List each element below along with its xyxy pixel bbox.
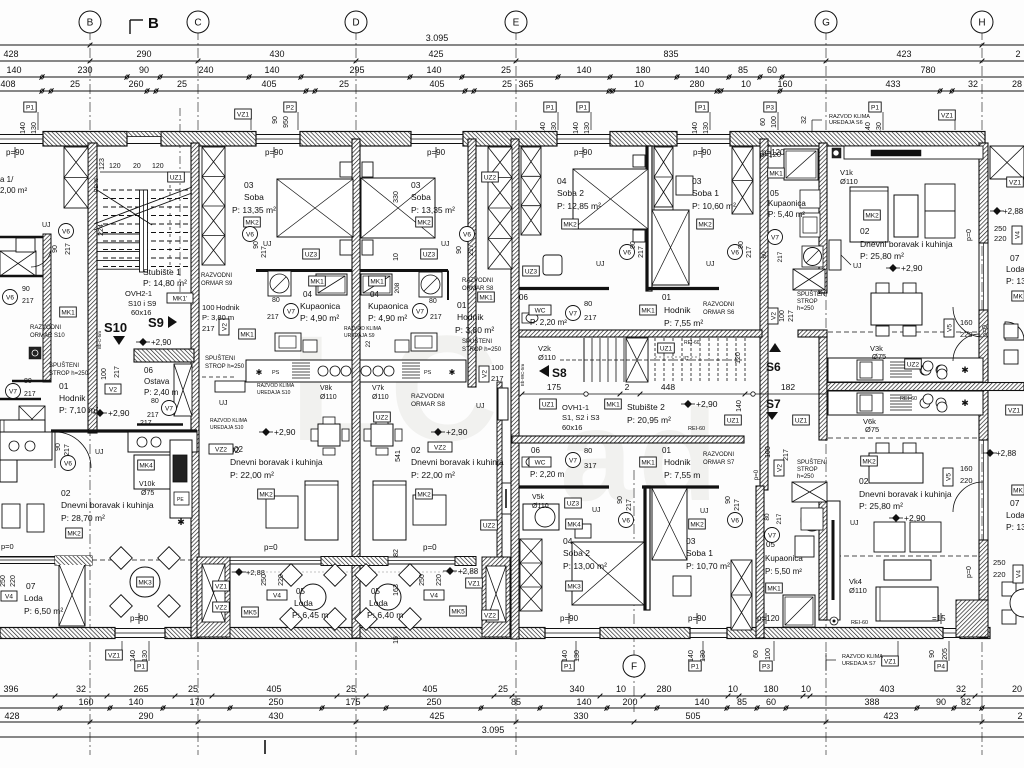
svg-text:Loda: Loda [1006, 264, 1024, 274]
svg-text:SPUŠTENI: SPUŠTENI [797, 459, 827, 466]
svg-text:100: 100 [491, 363, 504, 372]
bath S9 shower [316, 274, 347, 295]
bed Soba1 top (rotated) [652, 210, 689, 285]
svg-text:REI-60: REI-60 [851, 620, 868, 626]
svg-text:WC: WC [535, 308, 546, 315]
svg-text:D: D [352, 18, 359, 29]
svg-text:28: 28 [1012, 79, 1022, 89]
svg-text:60: 60 [767, 65, 777, 75]
svg-text:Hodnik: Hodnik [216, 303, 240, 312]
svg-text:06: 06 [144, 366, 153, 375]
svg-text:VZ1: VZ1 [215, 584, 227, 591]
svg-text:Ø75: Ø75 [865, 425, 879, 434]
svg-text:10: 10 [393, 253, 400, 261]
svg-text:Soba 1: Soba 1 [692, 188, 719, 198]
svg-text:p=0: p=0 [966, 566, 973, 578]
svg-text:140: 140 [562, 650, 569, 662]
svg-text:STROP h=250: STROP h=250 [205, 364, 245, 370]
bottom dim row 3 [0, 721, 1024, 723]
svg-text:130: 130 [700, 650, 707, 662]
bath S8 vanity [411, 333, 437, 351]
svg-text:h=250: h=250 [797, 474, 815, 480]
svg-text:UZ3: UZ3 [525, 269, 538, 276]
svg-text:05: 05 [296, 587, 305, 596]
svg-text:Kupaonica: Kupaonica [368, 301, 408, 311]
svg-text:RAZVOD KLIMA: RAZVOD KLIMA [210, 418, 248, 424]
left apartment wardrobe [0, 251, 36, 276]
svg-text:60: 60 [753, 650, 760, 658]
svg-text:UJ: UJ [476, 403, 485, 410]
svg-text:10: 10 [634, 79, 644, 89]
svg-text:22: 22 [366, 340, 372, 347]
svg-text:RAZVODNI: RAZVODNI [703, 302, 734, 308]
svg-text:208: 208 [394, 282, 401, 293]
loggia pillar mid [197, 557, 230, 637]
vertical wall E apartment east / stairwell2 [760, 139, 768, 490]
svg-text:V6: V6 [246, 231, 254, 238]
svg-text:140: 140 [692, 122, 699, 134]
svg-text:V2: V2 [109, 387, 117, 394]
kitchen S8 counter [360, 360, 466, 382]
dining table S8 [371, 424, 393, 446]
svg-text:85: 85 [737, 697, 747, 707]
svg-text:STROP h=250: STROP h=250 [462, 347, 502, 353]
svg-text:S9: S9 [148, 315, 164, 330]
svg-text:P1: P1 [137, 664, 145, 671]
left apartment inner walls [0, 236, 51, 239]
svg-text:3.095: 3.095 [426, 33, 449, 43]
svg-text:25: 25 [188, 684, 198, 694]
svg-text:UZ3: UZ3 [305, 252, 318, 259]
sofa right apartment top [850, 187, 888, 242]
svg-text:182: 182 [781, 382, 795, 392]
svg-text:MK1: MK1 [641, 460, 655, 467]
svg-text:217: 217 [746, 246, 753, 258]
svg-text:130: 130 [142, 650, 149, 662]
svg-text:408: 408 [0, 79, 15, 89]
svg-text:VZ2: VZ2 [215, 447, 227, 454]
svg-text:V6: V6 [64, 460, 72, 467]
svg-text:V7: V7 [165, 405, 173, 412]
svg-text:80: 80 [584, 299, 592, 308]
svg-text:20: 20 [133, 163, 141, 170]
top outer wall [43, 132, 127, 147]
right apt dashed guides [828, 331, 979, 333]
svg-text:100: 100 [101, 368, 108, 380]
right apt bath top fixtures [784, 149, 818, 180]
svg-text:P: 13,35 m²: P: 13,35 m² [411, 205, 455, 215]
svg-text:140: 140 [20, 122, 27, 134]
svg-text:123: 123 [99, 158, 106, 170]
svg-text:F: F [631, 662, 637, 673]
kitchen right apartment bottom row [828, 391, 983, 415]
svg-text:02: 02 [411, 445, 421, 455]
stair2 area texts [529, 305, 551, 315]
svg-text:10: 10 [801, 684, 811, 694]
top wall stair opening [127, 143, 161, 145]
svg-text:RAZVODNI: RAZVODNI [201, 273, 232, 279]
svg-text:140: 140 [688, 650, 695, 662]
svg-text:V7: V7 [416, 308, 424, 315]
bed S8 room [361, 178, 435, 238]
svg-text:100: 100 [771, 116, 778, 128]
top overall dimension 3.095 [0, 44, 1024, 46]
svg-text:V7: V7 [287, 308, 295, 315]
svg-text:P: 13: P: 13 [1006, 522, 1024, 532]
svg-text:MK3: MK3 [567, 584, 581, 591]
svg-text:p=0: p=0 [1, 542, 14, 551]
svg-text:Ø75: Ø75 [872, 352, 886, 361]
bottom dim row 2 [0, 707, 1024, 709]
svg-text:82: 82 [393, 549, 400, 557]
shaft left bottom bedroom [520, 539, 542, 611]
right loggia top X panel [990, 146, 1024, 179]
svg-text:03: 03 [686, 536, 696, 546]
svg-text:RE/48: RE/48 [94, 178, 100, 192]
svg-text:P: 6,50 m²: P: 6,50 m² [24, 606, 63, 616]
svg-text:217: 217 [147, 412, 159, 419]
svg-text:217: 217 [114, 366, 121, 378]
svg-text:80: 80 [764, 513, 771, 521]
round table right loggia top [1005, 322, 1024, 340]
svg-text:217: 217 [202, 324, 215, 333]
svg-text:90: 90 [738, 241, 745, 249]
svg-text:217: 217 [788, 310, 795, 322]
svg-text:P: 7,10 m²: P: 7,10 m² [59, 405, 98, 415]
svg-text:MK1: MK1 [310, 279, 324, 286]
svg-text:V2: V2 [771, 312, 778, 320]
sofa set S9 living [266, 496, 298, 528]
svg-text:MK2: MK2 [245, 220, 259, 227]
svg-text:UZ1: UZ1 [170, 175, 183, 182]
svg-text:Loda: Loda [24, 593, 43, 603]
svg-text:06: 06 [519, 293, 528, 302]
svg-text:260: 260 [128, 79, 143, 89]
stair2 treads solid [583, 338, 585, 382]
svg-text:P1: P1 [698, 105, 706, 112]
svg-text:RAZVODNI: RAZVODNI [30, 325, 61, 331]
svg-text:2: 2 [1017, 711, 1022, 721]
svg-text:90: 90 [253, 241, 260, 249]
axis VZ1 left [179, 108, 181, 300]
round table right loggia bottom [1002, 582, 1016, 596]
svg-text:P: 4,90 m²: P: 4,90 m² [300, 313, 339, 323]
svg-text:Ø110: Ø110 [840, 177, 858, 186]
svg-text:VZ1: VZ1 [108, 653, 120, 660]
svg-text:ORMAR S8: ORMAR S8 [411, 401, 445, 408]
svg-text:140: 140 [6, 65, 21, 75]
svg-text:V6: V6 [6, 294, 14, 301]
svg-text:140: 140 [736, 400, 743, 412]
svg-text:MK5: MK5 [243, 610, 257, 617]
svg-text:217: 217 [468, 244, 475, 256]
svg-text:250: 250 [268, 697, 283, 707]
svg-text:V4: V4 [1016, 570, 1023, 578]
svg-text:04: 04 [557, 176, 567, 186]
svg-text:217: 217 [734, 499, 741, 511]
svg-text:V6: V6 [623, 249, 631, 256]
svg-text:Soba: Soba [411, 192, 431, 202]
svg-text:UZ2: UZ2 [376, 415, 389, 422]
svg-text:140: 140 [694, 65, 709, 75]
bed Soba1 bottom (rotated) [652, 488, 687, 560]
right apt bath bottom fixtures [801, 509, 823, 531]
svg-text:UJ: UJ [596, 261, 605, 268]
svg-text:220: 220 [960, 476, 973, 485]
kitchen right apartment top row [828, 358, 983, 382]
svg-text:04: 04 [563, 536, 573, 546]
svg-text:405: 405 [266, 684, 281, 694]
svg-text:25: 25 [498, 684, 508, 694]
svg-text:P: 12,85 m²: P: 12,85 m² [557, 201, 601, 211]
svg-text:405: 405 [429, 79, 444, 89]
svg-text:+2,90: +2,90 [696, 399, 718, 409]
washing machine right apt top [802, 246, 823, 267]
svg-text:180: 180 [635, 65, 650, 75]
vertical wall S8 east [468, 139, 476, 387]
svg-text:+2,90: +2,90 [274, 427, 296, 437]
top dim row 3 [0, 90, 1024, 92]
svg-text:3.095: 3.095 [482, 725, 505, 735]
svg-text:p=0: p=0 [423, 543, 437, 552]
svg-text:217: 217 [626, 499, 633, 511]
svg-text:✱: ✱ [256, 368, 263, 377]
svg-text:32: 32 [956, 684, 966, 694]
svg-text:p=0: p=0 [982, 325, 989, 337]
svg-text:ORMAR S9: ORMAR S9 [201, 281, 233, 287]
tall cabinet right apt [827, 501, 840, 620]
vertical wall E apartment west [511, 139, 519, 639]
svg-text:140: 140 [694, 697, 709, 707]
svg-text:UZ3: UZ3 [567, 501, 580, 508]
svg-text:220: 220 [10, 575, 17, 587]
svg-text:10: 10 [728, 684, 738, 694]
svg-text:MK3: MK3 [138, 580, 152, 587]
wall S9 bath top [256, 269, 352, 272]
svg-text:V4: V4 [1015, 231, 1022, 239]
svg-text:P: 10,70 m²: P: 10,70 m² [686, 561, 730, 571]
svg-text:217: 217 [64, 444, 71, 456]
svg-text:Kupaonica: Kupaonica [300, 301, 340, 311]
svg-text:B: B [87, 18, 94, 29]
svg-text:130: 130 [574, 650, 581, 662]
svg-text:100: 100 [779, 310, 786, 322]
svg-text:295: 295 [349, 65, 364, 75]
svg-text:217: 217 [22, 298, 34, 305]
top dim row 1 [0, 60, 1024, 62]
bottom outer wall [0, 628, 115, 639]
svg-text:835: 835 [663, 49, 678, 59]
grid circle B [79, 11, 101, 33]
right apt bath X box bottom [792, 482, 827, 502]
svg-text:UJ: UJ [441, 241, 450, 248]
svg-text:175: 175 [547, 382, 561, 392]
svg-text:OVH2-1: OVH2-1 [125, 289, 152, 298]
svg-text:WC: WC [535, 460, 546, 467]
svg-text:P: 28,70 m²: P: 28,70 m² [61, 513, 105, 523]
svg-text:Ø110: Ø110 [849, 586, 867, 595]
svg-text:VZ1: VZ1 [237, 112, 249, 119]
svg-text:403: 403 [879, 684, 894, 694]
svg-text:340: 340 [569, 684, 584, 694]
loggia top wall band [0, 556, 92, 558]
svg-text:160: 160 [78, 697, 93, 707]
svg-text:P: 5,50 m²: P: 5,50 m² [765, 567, 802, 576]
stair1 axis dashes [169, 185, 171, 270]
svg-text:MK1: MK1 [479, 295, 493, 302]
svg-text:217: 217 [140, 420, 152, 427]
S9/S8 living texts [262, 428, 270, 436]
vertical wall between bedrooms bottom [644, 486, 650, 610]
svg-text:82: 82 [961, 697, 971, 707]
svg-text:330: 330 [573, 711, 588, 721]
stairwell2 top wall [519, 330, 762, 337]
svg-text:V4: V4 [273, 593, 281, 600]
kitchen top right apartment along top wall [844, 146, 983, 159]
svg-text:P: 7,55 m²: P: 7,55 m² [664, 318, 703, 328]
svg-text:UZ1: UZ1 [542, 402, 555, 409]
svg-text:Vk4: Vk4 [849, 577, 862, 586]
svg-text:Stubište 2: Stubište 2 [627, 402, 665, 412]
svg-text:UZ1: UZ1 [795, 418, 808, 425]
svg-text:RAZVOD KLIMA: RAZVOD KLIMA [842, 654, 883, 660]
svg-text:PS: PS [424, 370, 432, 376]
grid axis F [633, 470, 635, 712]
svg-text:90: 90 [139, 65, 149, 75]
bed S9 room [277, 179, 353, 237]
svg-text:140: 140 [264, 65, 279, 75]
stair1 treads upper dashed [103, 189, 190, 191]
svg-text:200: 200 [622, 697, 637, 707]
svg-text:MK1: MK1 [769, 171, 783, 178]
svg-text:P: 5,40 m²: P: 5,40 m² [768, 210, 805, 219]
svg-text:MK4: MK4 [139, 463, 153, 470]
svg-text:P3: P3 [762, 664, 770, 671]
svg-text:H: H [978, 18, 985, 29]
svg-text:100: 100 [765, 648, 772, 660]
svg-text:MK4: MK4 [567, 522, 581, 529]
svg-text:P: 20,95 m²: P: 20,95 m² [627, 415, 671, 425]
svg-text:Hodnik: Hodnik [457, 312, 484, 322]
svg-text:UJ: UJ [592, 507, 601, 514]
svg-text:Ø110: Ø110 [320, 394, 337, 401]
vertical wall right outer [979, 143, 988, 243]
svg-text:P: 14,80 m²: P: 14,80 m² [143, 278, 187, 288]
svg-text:VZ1: VZ1 [1009, 180, 1021, 187]
bottom wall windows [115, 628, 165, 630]
svg-text:P: 2,20 m²: P: 2,20 m² [530, 318, 567, 327]
vertical wall stair1 left [88, 143, 97, 433]
svg-text:2: 2 [1015, 49, 1020, 59]
svg-text:265: 265 [133, 684, 148, 694]
WC top E-apt fixtures [522, 313, 538, 323]
svg-text:RAZVOD KLIMA: RAZVOD KLIMA [257, 383, 295, 389]
svg-text:MK2: MK2 [865, 213, 879, 220]
right apartment bottom texts [774, 460, 784, 476]
svg-text:V5: V5 [947, 324, 954, 332]
svg-text:Bb-C-5m: Bb-C-5m [97, 331, 102, 349]
svg-text:+2,90: +2,90 [904, 513, 926, 523]
svg-text:217: 217 [24, 391, 36, 398]
svg-text:Stubište 1: Stubište 1 [143, 267, 181, 277]
svg-text:80: 80 [24, 378, 32, 385]
svg-text:80: 80 [584, 446, 592, 455]
svg-text:130: 130 [584, 122, 591, 134]
svg-text:STROP h=250: STROP h=250 [49, 371, 89, 377]
svg-text:V2: V2 [482, 370, 489, 378]
svg-text:MK1: MK1 [606, 402, 620, 409]
svg-text:S7: S7 [766, 397, 781, 411]
svg-text:V2k: V2k [538, 344, 551, 353]
grid circle D [345, 11, 367, 33]
svg-text:SPUŠTENI: SPUŠTENI [462, 338, 492, 345]
svg-text:80: 80 [761, 251, 768, 259]
section mark bottom [264, 740, 266, 754]
svg-text:UJ: UJ [706, 261, 715, 268]
svg-text:Soba: Soba [244, 192, 264, 202]
grid circle C [187, 11, 209, 33]
svg-text:Soba 2: Soba 2 [563, 548, 590, 558]
svg-text:Soba 1: Soba 1 [686, 548, 713, 558]
svg-text:217: 217 [261, 246, 268, 258]
svg-text:60x16: 60x16 [562, 423, 582, 432]
WC bottom E-apt fixtures [522, 457, 538, 467]
terrace dashed line [92, 559, 197, 561]
shaft E-apt east top [732, 147, 753, 214]
svg-text:STROP: STROP [797, 467, 818, 473]
svg-text:2,00 m²: 2,00 m² [0, 186, 27, 195]
svg-text:180: 180 [763, 684, 778, 694]
svg-text:p=0: p=0 [966, 229, 973, 241]
svg-text:423: 423 [896, 49, 911, 59]
svg-text:RAZVODNI: RAZVODNI [411, 393, 445, 400]
svg-text:V2: V2 [777, 464, 784, 472]
svg-text:220: 220 [993, 570, 1006, 579]
svg-text:V10k: V10k [139, 481, 155, 488]
svg-text:02: 02 [234, 445, 243, 454]
svg-text:950: 950 [283, 116, 290, 128]
stair2 X break [626, 338, 648, 382]
svg-text:P: 7,55 m: P: 7,55 m [664, 470, 700, 480]
wardrobe Soba2 top [654, 147, 673, 207]
door fixture [29, 347, 41, 359]
svg-text:V7: V7 [569, 457, 577, 464]
svg-text:140: 140 [576, 65, 591, 75]
svg-text:Hodnik: Hodnik [59, 393, 86, 403]
svg-text:B: B [148, 15, 159, 32]
stairwell2 bottom wall [512, 436, 744, 443]
svg-text:P: 22,00 m²: P: 22,00 m² [411, 470, 455, 480]
svg-text:250: 250 [993, 558, 1006, 567]
svg-text:V6: V6 [463, 231, 471, 238]
dining right apartment top [871, 293, 922, 325]
svg-text:+2,88: +2,88 [246, 568, 265, 577]
stair2 treads dashed [654, 338, 656, 382]
svg-text:V6: V6 [731, 249, 739, 256]
svg-text:UZ2: UZ2 [484, 175, 497, 182]
svg-text:MK2: MK2 [698, 222, 712, 229]
svg-text:Kupaonica: Kupaonica [765, 554, 803, 563]
svg-text:UREDAJA S9: UREDAJA S9 [344, 333, 375, 339]
svg-text:163: 163 [393, 584, 400, 596]
svg-text:UJ: UJ [95, 449, 104, 456]
vertical wall between Soba2/Soba1 top [646, 146, 652, 291]
svg-text:02: 02 [859, 476, 869, 486]
svg-text:V2: V2 [222, 323, 229, 331]
svg-text:a 1/: a 1/ [0, 175, 14, 184]
svg-text:365: 365 [518, 79, 533, 89]
svg-text:Dnevni boravak i kuhinja: Dnevni boravak i kuhinja [411, 457, 504, 467]
